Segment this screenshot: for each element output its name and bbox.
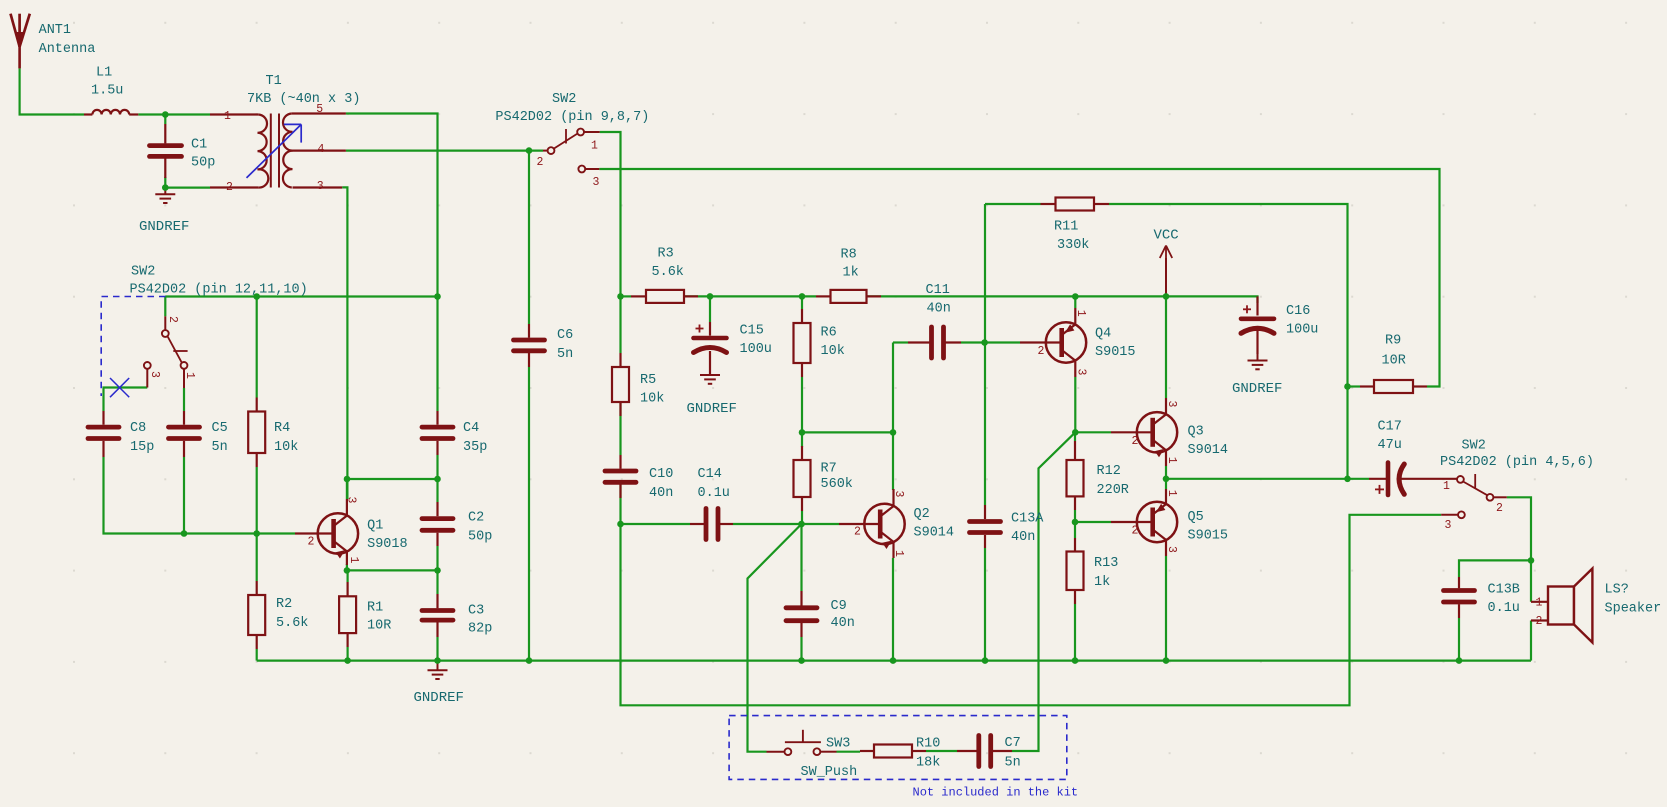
svg-text:S9018: S9018	[367, 537, 408, 552]
wire Q4 emitter up	[1074, 297, 1076, 309]
svg-text:10R: 10R	[1382, 354, 1406, 369]
svg-text:S9015: S9015	[1188, 529, 1229, 544]
svg-text:18k: 18k	[916, 756, 940, 771]
junction	[162, 184, 169, 191]
svg-text:Antenna: Antenna	[39, 42, 96, 57]
svg-text:R6: R6	[821, 326, 837, 341]
svg-text:C4: C4	[463, 421, 479, 436]
wire R1 bottom to ground	[347, 647, 349, 661]
junction	[162, 111, 169, 118]
polarized capacitor C15	[694, 324, 772, 358]
svg-text:1k: 1k	[1094, 575, 1110, 590]
pins C8/C5/R4	[104, 398, 257, 468]
wire T1 pin 5 to node	[346, 114, 438, 297]
svg-text:C1: C1	[191, 138, 207, 153]
wire Q2 base node diagonal to SW3	[748, 524, 802, 752]
capacitor C5	[169, 421, 228, 455]
wire SW2(12,11,10) pin 2 up	[164, 297, 166, 317]
transistor Q2 (S9014)	[854, 491, 954, 558]
capacitor C3	[422, 604, 492, 637]
pins C11	[908, 341, 961, 343]
svg-text:1: 1	[1536, 597, 1543, 610]
resistor R8	[831, 248, 867, 303]
wire R9 left	[1348, 385, 1361, 387]
svg-text:5.6k: 5.6k	[652, 265, 684, 280]
wire C14 row	[621, 523, 691, 525]
wire C6 top	[528, 151, 530, 324]
wire C1 bottom to T1 pin 2	[165, 177, 210, 188]
svg-text:R11: R11	[1054, 220, 1078, 235]
wire R13 bottom to ground	[1074, 604, 1076, 661]
svg-text:47u: 47u	[1378, 438, 1402, 453]
svg-text:330k: 330k	[1057, 238, 1089, 253]
wire R12 top	[1074, 432, 1076, 441]
junction	[890, 657, 897, 664]
svg-text:10k: 10k	[640, 392, 664, 407]
wire SW2 pin 3 to R9 net	[599, 169, 1439, 387]
pins C9	[800, 591, 802, 637]
capacitor C10	[605, 467, 673, 501]
wire Q3 base node to Q3	[1075, 431, 1111, 433]
resistor R3	[646, 247, 684, 303]
wire antenna to L1	[20, 68, 84, 114]
svg-text:R10: R10	[916, 737, 940, 752]
svg-text:2: 2	[1038, 345, 1045, 358]
svg-text:2: 2	[1536, 615, 1543, 628]
wire Q2 emitter to ground	[892, 558, 894, 661]
svg-text:C17: C17	[1378, 420, 1402, 435]
svg-text:C6: C6	[557, 328, 573, 343]
svg-text:2: 2	[308, 536, 315, 549]
capacitor C13B	[1444, 583, 1520, 617]
svg-text:1: 1	[347, 557, 360, 564]
svg-text:S9014: S9014	[914, 526, 955, 541]
svg-text:R7: R7	[821, 462, 837, 477]
wire C10 to C14 row	[619, 484, 621, 524]
junction	[434, 293, 441, 300]
svg-text:C3: C3	[468, 604, 484, 619]
junction	[434, 476, 441, 483]
svg-text:Q4: Q4	[1095, 327, 1111, 342]
wire Q5 emitter up	[1165, 479, 1167, 489]
svg-text:1: 1	[1443, 480, 1450, 493]
capacitor C11	[926, 283, 951, 358]
resistor R10	[874, 737, 940, 771]
svg-text:3: 3	[1445, 519, 1452, 532]
junction	[344, 657, 351, 664]
svg-text:R2: R2	[276, 597, 292, 612]
antenna ANT1	[11, 14, 96, 69]
pins C15	[709, 322, 711, 375]
Q5 pins	[1111, 489, 1166, 556]
wire emitter node to C17	[1166, 478, 1369, 480]
wire node C1 top	[164, 115, 166, 125]
svg-text:C13B: C13B	[1488, 583, 1520, 598]
junction	[1072, 429, 1079, 436]
junction	[1456, 657, 1463, 664]
svg-text:C10: C10	[649, 467, 673, 482]
junction	[344, 567, 351, 574]
svg-text:5n: 5n	[1005, 756, 1021, 771]
svg-text:10R: 10R	[367, 619, 391, 634]
svg-text:C14: C14	[698, 467, 722, 482]
wire SW2(4,5,6) pin 2 down to speaker	[1507, 497, 1531, 602]
junction	[1072, 293, 1079, 300]
svg-text:50p: 50p	[191, 156, 215, 171]
ground GNDREF (C15)	[687, 369, 737, 418]
svg-text:R1: R1	[367, 601, 383, 616]
wire R7 bottom	[801, 511, 803, 524]
wire R13 top	[1074, 522, 1076, 538]
capacitor C4	[422, 421, 487, 455]
svg-text:220R: 220R	[1097, 483, 1129, 498]
junction	[1163, 476, 1170, 483]
junction	[1528, 557, 1535, 564]
wire Q2 base node to Q2	[802, 523, 840, 525]
junction	[798, 521, 805, 528]
wire Q1 collector	[346, 479, 348, 499]
wire R11 right to R9 net	[1109, 204, 1348, 479]
ground GNDREF (main)	[414, 661, 464, 706]
resistor R9	[1374, 334, 1413, 394]
resistor R4	[248, 412, 298, 456]
svg-text:0.1u: 0.1u	[1488, 601, 1520, 616]
junction	[1344, 476, 1351, 483]
Q2 pins	[839, 489, 894, 558]
pins R3/R8	[631, 295, 881, 297]
svg-text:PS42D02 (pin 9,8,7): PS42D02 (pin 9,8,7)	[495, 110, 649, 125]
svg-text:5.6k: 5.6k	[276, 616, 308, 631]
wire Q1 emitter	[346, 564, 348, 570]
svg-text:5n: 5n	[212, 440, 228, 455]
wire C9 to ground row	[800, 637, 802, 661]
svg-text:2: 2	[166, 316, 179, 323]
junction	[1072, 519, 1079, 526]
svg-text:7KB (~40n x 3): 7KB (~40n x 3)	[247, 92, 360, 107]
svg-text:C16: C16	[1286, 304, 1310, 319]
svg-text:C2: C2	[468, 511, 484, 526]
svg-text:Q2: Q2	[914, 507, 930, 522]
svg-text:2: 2	[1132, 525, 1139, 538]
svg-text:Q5: Q5	[1188, 510, 1204, 525]
wire C15 branch	[709, 296, 711, 322]
wire Q3 emitter to node	[1165, 466, 1167, 479]
junction	[1163, 293, 1170, 300]
svg-text:50p: 50p	[468, 530, 492, 545]
resistor R11	[1054, 198, 1094, 254]
capacitor C1	[150, 124, 216, 178]
wire Q3 collector to VCC row	[1165, 296, 1167, 398]
resistor R2	[248, 595, 308, 635]
svg-text:S9015: S9015	[1095, 345, 1136, 360]
pins R11	[1041, 203, 1110, 205]
svg-text:C13A: C13A	[1011, 512, 1044, 527]
speaker LS?	[1531, 569, 1661, 643]
wire C13A bottom to ground	[984, 548, 986, 661]
capacitor C6	[514, 328, 574, 362]
svg-text:2: 2	[537, 156, 544, 169]
wire R8 to C16 corner	[867, 296, 1258, 303]
pins C4/C2/C3	[436, 411, 438, 637]
wire speaker node to C13B	[1459, 560, 1531, 577]
wire R3 to C15 node	[684, 295, 710, 297]
junction	[617, 293, 624, 300]
switch SW2 (pins 9,8,7)	[495, 92, 649, 189]
svg-text:C9: C9	[831, 599, 847, 614]
svg-text:2: 2	[854, 526, 861, 539]
junction	[434, 567, 441, 574]
svg-text:100u: 100u	[1286, 323, 1318, 338]
svg-text:SW2: SW2	[552, 92, 576, 107]
svg-text:5n: 5n	[557, 347, 573, 362]
junction	[707, 293, 714, 300]
no-connect X	[110, 378, 129, 397]
svg-text:SW2: SW2	[1462, 439, 1486, 454]
svg-text:Q3: Q3	[1188, 425, 1204, 440]
svg-text:R3: R3	[658, 247, 674, 262]
Q1 emitter row	[347, 569, 438, 571]
wire C11 left	[893, 341, 908, 343]
wire R12 bottom	[1074, 510, 1076, 522]
junction	[344, 476, 351, 483]
wire SW2 pin 1 down to R3 row	[600, 132, 621, 353]
switch SW2 (pins 4,5,6)	[1440, 439, 1594, 533]
wire Q3 base node diagonal to C7	[1012, 432, 1075, 751]
junction	[181, 530, 188, 537]
wire L1 to T1 pin 1	[138, 113, 210, 115]
junction	[982, 657, 989, 664]
resistor R1	[339, 596, 391, 633]
svg-text:S9014: S9014	[1188, 443, 1229, 458]
svg-text:2: 2	[226, 181, 233, 194]
transformer T1	[210, 74, 360, 194]
resistor R6	[794, 323, 845, 363]
wire R11 left down (C13A net)	[984, 204, 986, 505]
wire Q5 base	[1075, 521, 1111, 523]
wire C14 row to SW2(4,5,6) pin 3	[621, 515, 1442, 706]
svg-text:C11: C11	[926, 283, 950, 298]
svg-text:R13: R13	[1094, 556, 1118, 571]
svg-text:Speaker: Speaker	[1605, 602, 1662, 617]
wire C5 bottom	[183, 457, 185, 534]
Q4 pins	[1020, 308, 1075, 377]
svg-text:1: 1	[183, 372, 196, 379]
junction	[798, 657, 805, 664]
svg-text:GNDREF: GNDREF	[687, 401, 737, 417]
wire C3 bottom to ground	[436, 637, 438, 661]
capacitor C7	[979, 736, 1021, 771]
wire Q4 collector down to Q3 base node	[1074, 377, 1076, 432]
junction	[1163, 657, 1170, 664]
svg-text:L1: L1	[96, 66, 112, 81]
svg-text:40n: 40n	[649, 486, 673, 501]
svg-text:T1: T1	[266, 74, 282, 89]
polarized capacitor C16	[1241, 304, 1318, 338]
svg-text:1.5u: 1.5u	[91, 84, 123, 99]
wire C15 node to R8	[710, 295, 816, 297]
wire R6 top	[801, 296, 803, 309]
svg-text:100u: 100u	[740, 342, 772, 357]
svg-text:R8: R8	[841, 248, 857, 263]
svg-text:GNDREF: GNDREF	[1232, 381, 1282, 397]
wire SW2 pin 1 down to C5	[183, 388, 185, 411]
capacitor C2	[422, 511, 492, 545]
pins R2/R1	[257, 581, 348, 649]
transistor Q1 (S9018)	[308, 497, 408, 564]
svg-text:R12: R12	[1097, 464, 1121, 479]
junction	[253, 530, 260, 537]
svg-text:4: 4	[318, 143, 325, 156]
junction	[799, 429, 806, 436]
resistor R7	[794, 460, 853, 497]
capacitor C9	[786, 599, 855, 631]
svg-text:SW2: SW2	[131, 265, 155, 280]
junction	[617, 521, 624, 528]
svg-text:3: 3	[593, 176, 600, 189]
junction	[253, 293, 260, 300]
pins C13B	[1458, 577, 1460, 618]
wire C2 top	[436, 479, 438, 502]
pins C7	[957, 750, 1012, 752]
wire C14 to Q2 base node	[733, 523, 802, 525]
svg-text:LS?: LS?	[1605, 583, 1629, 598]
svg-text:Q1: Q1	[367, 519, 383, 534]
wire Q2 collector	[892, 343, 894, 491]
wire R6 row to Q2 collector	[802, 431, 893, 433]
wire C6 bottom to ground	[528, 367, 530, 661]
Q3 pins	[1111, 398, 1166, 466]
dashed box (not included)	[729, 716, 1067, 780]
wire Q5 collector to ground	[1165, 556, 1167, 661]
svg-text:GNDREF: GNDREF	[139, 219, 189, 235]
pins C14	[690, 523, 733, 525]
pins C13A	[984, 505, 986, 548]
svg-text:2: 2	[1132, 435, 1139, 448]
inductor L1	[84, 66, 138, 115]
svg-text:40n: 40n	[1011, 530, 1035, 545]
svg-text:560k: 560k	[821, 477, 853, 492]
wire C2 bottom to emitter row	[436, 546, 438, 570]
pins C6	[528, 324, 530, 367]
svg-text:Not included in the kit: Not included in the kit	[913, 786, 1079, 800]
capacitor C13A	[970, 512, 1045, 546]
Q1 pins	[295, 499, 347, 565]
wire Q1 collector node row	[347, 478, 438, 480]
wire R10 to C7	[926, 750, 957, 752]
pins R5/C10	[619, 353, 621, 498]
capacitor C14	[698, 467, 730, 540]
push switch SW3	[767, 730, 858, 780]
junction	[890, 429, 897, 436]
svg-text:VCC: VCC	[1154, 228, 1179, 244]
wire C13B bottom to ground row	[1458, 618, 1460, 661]
ground GNDREF (C1)	[139, 188, 189, 235]
wire R2 top	[256, 534, 258, 582]
pins R12/R13	[1074, 441, 1076, 604]
ground row	[257, 659, 1531, 661]
pins C16	[1256, 296, 1258, 354]
ground GNDREF (C16)	[1232, 354, 1282, 397]
wire C8 bottom to base row	[104, 457, 296, 534]
svg-text:3: 3	[1075, 369, 1088, 376]
pins R9	[1360, 385, 1427, 387]
svg-text:PS42D02 (pin 4,5,6): PS42D02 (pin 4,5,6)	[1440, 455, 1594, 470]
wire speaker pin 2 to ground row	[1530, 621, 1532, 661]
resistor R12	[1067, 460, 1129, 498]
wire emitter row to R1	[347, 570, 349, 582]
wire R3 row	[621, 295, 632, 297]
wire R4 top	[256, 297, 258, 398]
svg-text:C5: C5	[212, 421, 228, 436]
junction	[434, 657, 441, 664]
svg-text:10k: 10k	[821, 344, 845, 359]
svg-text:SW_Push: SW_Push	[801, 765, 858, 780]
svg-text:1: 1	[591, 140, 598, 153]
wire T1 pin 3 down to Q1 collector	[342, 187, 347, 499]
svg-text:3: 3	[317, 180, 324, 193]
polarized capacitor C17	[1369, 420, 1457, 496]
svg-text:R4: R4	[274, 421, 290, 436]
junction	[526, 657, 533, 664]
SW2(12,11,10) row	[165, 295, 437, 297]
wire R2 bottom to ground row	[256, 649, 258, 661]
wire C3 top	[436, 570, 438, 594]
junction	[981, 339, 988, 346]
svg-text:40n: 40n	[927, 302, 951, 317]
wire node to C4	[436, 297, 438, 412]
svg-text:0.1u: 0.1u	[698, 486, 730, 501]
resistor R5	[612, 367, 664, 407]
pins R6/R7	[801, 309, 803, 511]
transistor Q4 (S9015)	[1038, 310, 1136, 376]
pins R10	[860, 750, 926, 752]
svg-text:1k: 1k	[843, 266, 859, 281]
svg-text:2: 2	[1496, 502, 1503, 515]
svg-text:15p: 15p	[130, 440, 154, 455]
wire R7 top green	[801, 432, 803, 447]
adjust arrow	[247, 124, 302, 177]
svg-text:C7: C7	[1005, 736, 1021, 751]
svg-text:ANT1: ANT1	[39, 23, 71, 38]
power VCC	[1154, 228, 1179, 297]
svg-text:35p: 35p	[463, 440, 487, 455]
svg-text:GNDREF: GNDREF	[414, 690, 464, 706]
junction	[1344, 383, 1351, 390]
wire Q2 base node to C9	[800, 524, 802, 591]
wire T1 pin 4 to SW2 pin 2	[346, 150, 543, 152]
resistor R13	[1067, 552, 1119, 591]
svg-text:PS42D02 (pin 12,11,10): PS42D02 (pin 12,11,10)	[130, 283, 308, 298]
svg-text:R5: R5	[640, 373, 656, 388]
wire SW3 to R10 (in box)	[837, 751, 861, 753]
wire R4 bottom	[256, 467, 258, 534]
junction	[1072, 657, 1079, 664]
wire R7 top to R6 row	[801, 377, 803, 432]
svg-text:40n: 40n	[831, 616, 855, 631]
junction	[799, 293, 806, 300]
svg-text:3: 3	[148, 371, 161, 378]
dashed annotation (unused switch section)	[101, 297, 165, 397]
svg-text:10k: 10k	[274, 440, 298, 455]
svg-text:C8: C8	[130, 421, 146, 436]
wire C4 to node	[436, 455, 438, 479]
svg-text:C15: C15	[740, 324, 764, 339]
transistor Q5 (S9015)	[1132, 490, 1229, 553]
svg-text:82p: 82p	[468, 622, 492, 637]
wire C11 right to Q4 base	[961, 341, 1020, 343]
switch SW2 (pins 12,11,10)	[130, 265, 308, 389]
transistor Q3 (S9014)	[1132, 401, 1229, 464]
